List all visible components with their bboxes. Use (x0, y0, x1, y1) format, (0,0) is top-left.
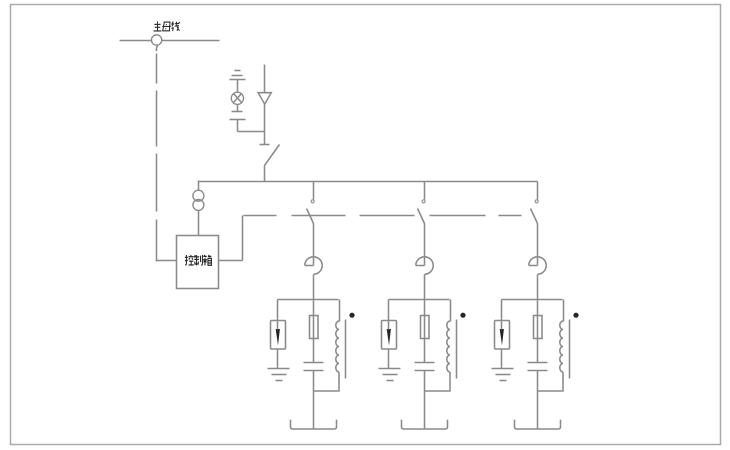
label "主母线" (main busbar) (154, 21, 180, 31)
wire: dashed feeder from busbar tap down to control box (156, 54, 158, 84)
branch 2 switch fixed contact circle (422, 200, 425, 203)
branch 2 ground symbol (379, 368, 401, 370)
branch 1 switch fixed contact circle (311, 200, 314, 203)
branch 2 discharge coil lead (450, 300, 452, 322)
branch 3 capacitor plates (528, 362, 548, 364)
branch 1 wire: coil bottom return (314, 372, 340, 391)
branch 2 discharge coil winding (447, 321, 450, 372)
branch 1 fuse box (310, 316, 319, 339)
branch 2 wire: coil bottom return (425, 372, 451, 391)
branch 1 arrester arrow (276, 329, 280, 345)
branch 2 polarity dot (460, 313, 465, 318)
branch 3 wire: capacitor down to rail (537, 371, 539, 430)
transformer winding circle 2 (193, 199, 204, 210)
control box 控制箱 (177, 236, 219, 289)
branch 1 arrester ground lead (277, 350, 279, 369)
transformer winding circle 1 (193, 190, 204, 201)
branch 2 wire: node through fuse to capacitor (424, 300, 426, 363)
branch 2 bottom rail bracket (402, 420, 448, 429)
wire: bus corner down to PT (198, 181, 200, 191)
branch 2 wire: blade to fuse-cutout (424, 224, 426, 266)
branch 3 discharge coil winding (560, 321, 563, 372)
branch 1 ground symbol (268, 368, 290, 370)
branch 1 wire: cutout to bank node (313, 275, 315, 300)
branch 1 fuse cutout hook symbol (305, 257, 322, 274)
branch 3 drop from feeder bus (537, 182, 539, 200)
branch 1 arrester lead (277, 300, 279, 329)
branch 2 drop from feeder bus (424, 182, 426, 200)
earthing switch blade (open) (265, 145, 280, 166)
branch 2 fuse cutout hook symbol (416, 257, 433, 274)
branch 3 polarity dot (573, 313, 578, 318)
branch 1 discharge coil winding (336, 321, 339, 372)
branch 3 surge arrester box (495, 321, 510, 350)
branch 1 wire: capacitor down to rail (313, 371, 315, 430)
branch 3 fuse box (534, 316, 543, 339)
branch 1 polarity dot (349, 313, 354, 318)
branch 2 surge arrester box (382, 321, 397, 350)
branch 3 wire: node through fuse to capacitor (537, 300, 539, 363)
branch 2 bank top node wire (389, 299, 450, 301)
branch 3 fuse cutout hook symbol (529, 257, 546, 274)
wire: feeder bus (199, 181, 538, 183)
node: busbar tap circle (151, 35, 161, 45)
inverted ground marks above indicator lamp (235, 70, 241, 72)
branch 3 ground symbol (492, 368, 514, 370)
branch 3 bank top node wire (502, 299, 563, 301)
branch 2 fuse box (421, 316, 430, 339)
wire (237, 105, 239, 112)
branch 3 wire: cutout to bank node (537, 275, 539, 300)
arrester valve triangle (258, 93, 271, 105)
branch 1 switch blade (open) (307, 209, 314, 224)
branch 1 wire: node through fuse to capacitor (313, 300, 315, 363)
wire (237, 120, 239, 132)
wire: control box right side out (219, 260, 243, 262)
branch 2 wire: cutout to bank node (424, 275, 426, 300)
branch 3 switch fixed contact circle (535, 200, 538, 203)
wire: short tail under tap circle (156, 45, 157, 51)
branch 2 switch blade (open) (418, 209, 425, 224)
branch 1 drop from feeder bus (313, 182, 315, 200)
branch 3 bottom rail bracket (515, 420, 561, 429)
branch 1 coil core bar (345, 320, 347, 379)
branch 1 bottom rail bracket (291, 420, 337, 429)
wire: PT to control box top (198, 211, 200, 236)
wire: into control box left side (157, 260, 177, 262)
wire: main busbar 主母线 (120, 40, 220, 42)
branch 1 capacitor plates (304, 362, 324, 364)
branch 3 discharge coil lead (563, 300, 565, 322)
branch 3 arrester lead (501, 300, 503, 329)
wire: arrester top lead (264, 65, 266, 93)
branch 2 capacitor plates (415, 362, 435, 364)
branch 2 wire: capacitor down to rail (424, 371, 426, 430)
wire (237, 80, 239, 93)
wire: dashed mechanical-link line through the three switch blades (244, 215, 277, 217)
wire: down to feeder bus (264, 166, 266, 182)
label "控制箱" (control box) (185, 255, 212, 266)
branch 1 wire: blade to fuse-cutout (313, 224, 315, 266)
wire: lamp branch to arrester lead (238, 131, 265, 133)
wire (264, 105, 266, 145)
indicator lamp (circle with X) (231, 92, 243, 104)
branch 1 surge arrester box (271, 321, 286, 350)
wire: control riser (242, 216, 244, 261)
branch 3 arrester arrow (500, 329, 504, 345)
branch 2 arrester lead (388, 300, 390, 329)
branch 2 arrester arrow (387, 329, 391, 345)
branch 3 wire: blade to fuse-cutout (537, 224, 539, 266)
branch 3 coil core bar (569, 320, 571, 379)
capacitor plates under lamp (232, 111, 243, 113)
branch 2 arrester ground lead (388, 350, 390, 369)
branch 1 bank top node wire (278, 299, 339, 301)
branch 3 switch blade (open) (531, 209, 538, 224)
branch 1 discharge coil lead (339, 300, 341, 322)
earth tick (fixed contact) (260, 144, 270, 146)
branch 3 arrester ground lead (501, 350, 503, 369)
branch 3 wire: coil bottom return (538, 372, 564, 391)
branch 2 coil core bar (456, 320, 458, 379)
